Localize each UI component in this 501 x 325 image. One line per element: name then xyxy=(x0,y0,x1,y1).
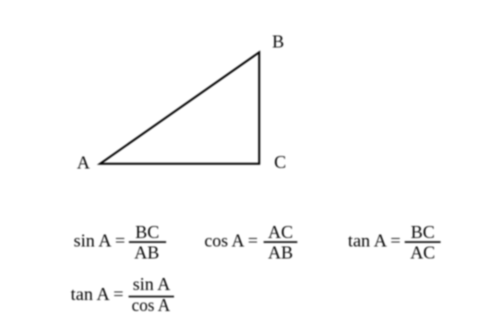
svg-text:BC: BC xyxy=(135,222,159,242)
svg-text:AB: AB xyxy=(268,243,293,263)
svg-text:tan A =: tan A = xyxy=(71,284,124,304)
svg-text:B: B xyxy=(272,31,284,51)
svg-text:sin A: sin A xyxy=(133,274,171,294)
svg-text:AC: AC xyxy=(268,222,293,242)
svg-text:tan A =: tan A = xyxy=(348,231,401,251)
svg-text:cos A: cos A xyxy=(132,295,171,315)
svg-text:BC: BC xyxy=(411,222,435,242)
svg-text:cos A =: cos A = xyxy=(204,231,258,251)
svg-text:C: C xyxy=(274,152,286,172)
svg-text:sin A =: sin A = xyxy=(74,231,126,251)
svg-text:AB: AB xyxy=(134,243,159,263)
svg-text:AC: AC xyxy=(410,243,435,263)
svg-text:A: A xyxy=(77,153,90,173)
